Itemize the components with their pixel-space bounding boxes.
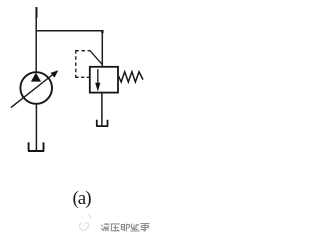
- 些: [130, 224, 139, 232]
- relief valve V1 body (square): [90, 67, 118, 93]
- tank T2 (valve drain tank): [96, 120, 108, 126]
- watermark swirl icon: [80, 215, 91, 231]
- tank T1 (pump suction tank): [28, 142, 44, 151]
- pump P1 (variable displacement pump circle): [20, 72, 52, 104]
- relief valve V1 internal flow arrow (points down): [95, 69, 100, 91]
- pump P1 variable arrow (diagonal with arrowhead): [11, 70, 58, 107]
- wire: vertical line down to valve inlet: [101, 30, 103, 67]
- pilot line (dashed pressure control line): [75, 50, 102, 78]
- label (a): [72, 188, 91, 209]
- svg-text:(a): (a): [72, 188, 91, 209]
- 那: [121, 224, 130, 232]
- 压: [111, 224, 120, 231]
- 事: [140, 224, 149, 232]
- 液: [101, 223, 110, 231]
- wire: pump suction line: [35, 104, 37, 151]
- wire: pump outlet vertical line: [35, 7, 38, 72]
- watermark text 液压那些事 (drawn glyphs): [101, 223, 150, 231]
- wire: valve drain line: [101, 93, 103, 126]
- wire: top horizontal branch to valve: [36, 30, 103, 32]
- spring (right side of valve): [119, 72, 143, 82]
- pump P1 flow triangle (points up): [31, 73, 41, 82]
